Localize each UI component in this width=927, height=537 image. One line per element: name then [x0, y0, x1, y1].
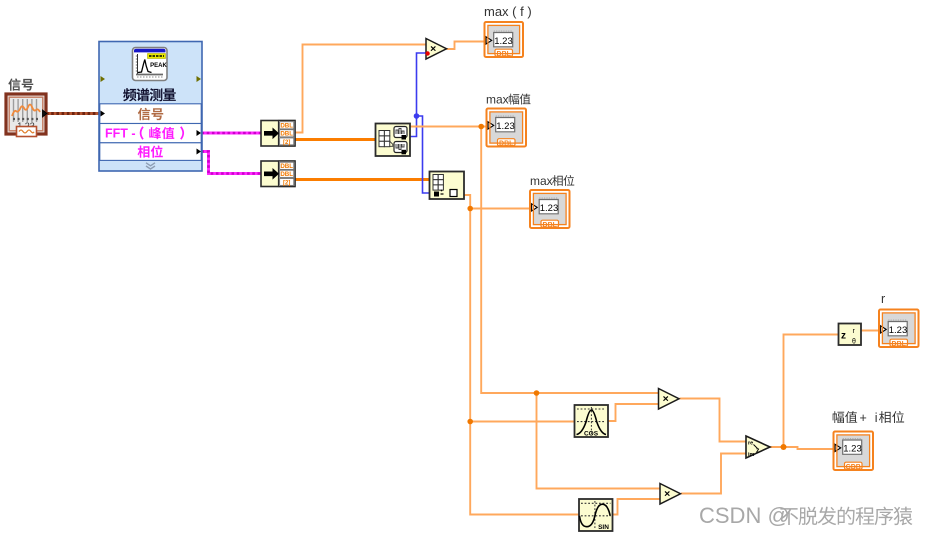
wire: amplitude branch to lower multiply	[537, 393, 661, 489]
svg-text:+: +	[860, 411, 867, 425]
node: signal control terminal 信号	[6, 78, 47, 136]
wire: complex branch up to Complex-to-Polar	[784, 335, 839, 448]
svg-text:×: ×	[663, 393, 669, 405]
wire: amplitude array convert1 to Array Max&Min	[295, 138, 376, 141]
wire: max amplitude branch down to multiplies	[481, 127, 658, 394]
wire: Index Array out to max phase indicator	[464, 195, 530, 209]
svg-text:max: max	[486, 93, 509, 107]
svg-text:CSDN @: CSDN @	[699, 503, 790, 528]
svg-text:SIN: SIN	[598, 524, 609, 531]
svg-text:θ: θ	[852, 339, 856, 346]
wire: multiply2 out to Re input	[680, 399, 747, 442]
wire: max index branch down to Index Array index input	[417, 116, 430, 193]
indicator: max ( f)	[484, 4, 532, 58]
svg-text:1.23: 1.23	[889, 325, 908, 336]
svg-text:DBL: DBL	[280, 163, 293, 170]
svg-text:max: max	[530, 174, 553, 188]
svg-text:[2]: [2]	[283, 180, 290, 186]
indicator: r	[879, 292, 919, 348]
svg-text:PEAK: PEAK	[150, 63, 167, 69]
svg-text:×: ×	[664, 488, 670, 500]
junction: blue index branch	[414, 113, 420, 119]
wire: phase output (dynamic, magenta dashed) to convert2	[202, 152, 263, 174]
node: Index Array	[430, 172, 465, 200]
svg-text:1.23: 1.23	[843, 443, 862, 454]
node: Convert from Dynamic Data 2	[261, 161, 295, 187]
junction: phase split at cos	[467, 419, 473, 425]
wire: dynamic data from signal terminal to express VI	[46, 112, 99, 115]
junction: phase out split	[467, 206, 473, 212]
svg-text:COS: COS	[584, 431, 599, 438]
junction: complex split	[781, 444, 787, 450]
node: multiply (index x df)	[425, 39, 446, 60]
svg-text:max ( f ): max ( f )	[484, 4, 532, 19]
node: Convert from Dynamic Data 1	[261, 121, 295, 147]
node: Complex to Polar z->r,theta	[839, 324, 862, 346]
wire: sin out to multiply3 lower input	[613, 499, 661, 515]
indicator: amplitude + i phase	[833, 411, 904, 471]
node: cosine function	[575, 405, 609, 438]
svg-text:re: re	[748, 441, 753, 447]
wire: max amplitude to indicator	[410, 126, 486, 128]
svg-text:z: z	[756, 448, 760, 455]
wire: multiply3 out to Im input	[681, 454, 746, 494]
node: sine function	[579, 499, 613, 531]
node: Array Max & Min	[376, 124, 411, 157]
indicator: max amplitude	[486, 93, 531, 148]
junction: amplitude split	[534, 390, 540, 396]
svg-text:FFT -: FFT -	[105, 127, 136, 141]
junction: amplitude branch	[478, 124, 484, 130]
node: multiply amp*sin	[660, 484, 681, 505]
svg-text:1.23: 1.23	[494, 36, 513, 47]
svg-text:DBL: DBL	[280, 131, 293, 138]
svg-text:i: i	[875, 411, 878, 425]
svg-text:1.23: 1.23	[496, 121, 515, 132]
wire: phase branch down to sin	[470, 422, 579, 515]
wire: phase branch down to cos	[470, 209, 574, 422]
svg-text:DBL: DBL	[280, 123, 293, 130]
svg-text:im: im	[748, 452, 755, 458]
svg-text:z: z	[841, 331, 846, 342]
wire: multiply1 out to max(f) indicator	[447, 42, 485, 50]
wire: r out to r indicator	[861, 330, 879, 332]
wire: cos out to multiply2 lower input	[608, 404, 659, 421]
svg-text:[2]: [2]	[283, 140, 290, 146]
svg-text:×: ×	[430, 43, 436, 55]
wire: scalar df from convert1 up to multiply	[295, 45, 427, 133]
svg-text:1.23: 1.23	[540, 203, 559, 214]
wire: FFT peak output (dynamic, magenta dashed) to convert1	[202, 132, 263, 135]
node: multiply amp*cos	[659, 389, 680, 410]
indicator: max phase	[530, 174, 574, 229]
wire: complex out to indicator	[768, 447, 833, 449]
wire: phase array convert2 to Index Array	[295, 178, 430, 181]
svg-text:DBL: DBL	[280, 171, 293, 178]
wire: max index (blue) to multiply	[410, 53, 427, 137]
node: Spectral Measurements express VI 频谱测量	[99, 42, 202, 172]
watermark CSDN	[699, 503, 912, 528]
node: Re/Im to Complex	[746, 436, 770, 458]
svg-text:r: r	[881, 292, 885, 306]
